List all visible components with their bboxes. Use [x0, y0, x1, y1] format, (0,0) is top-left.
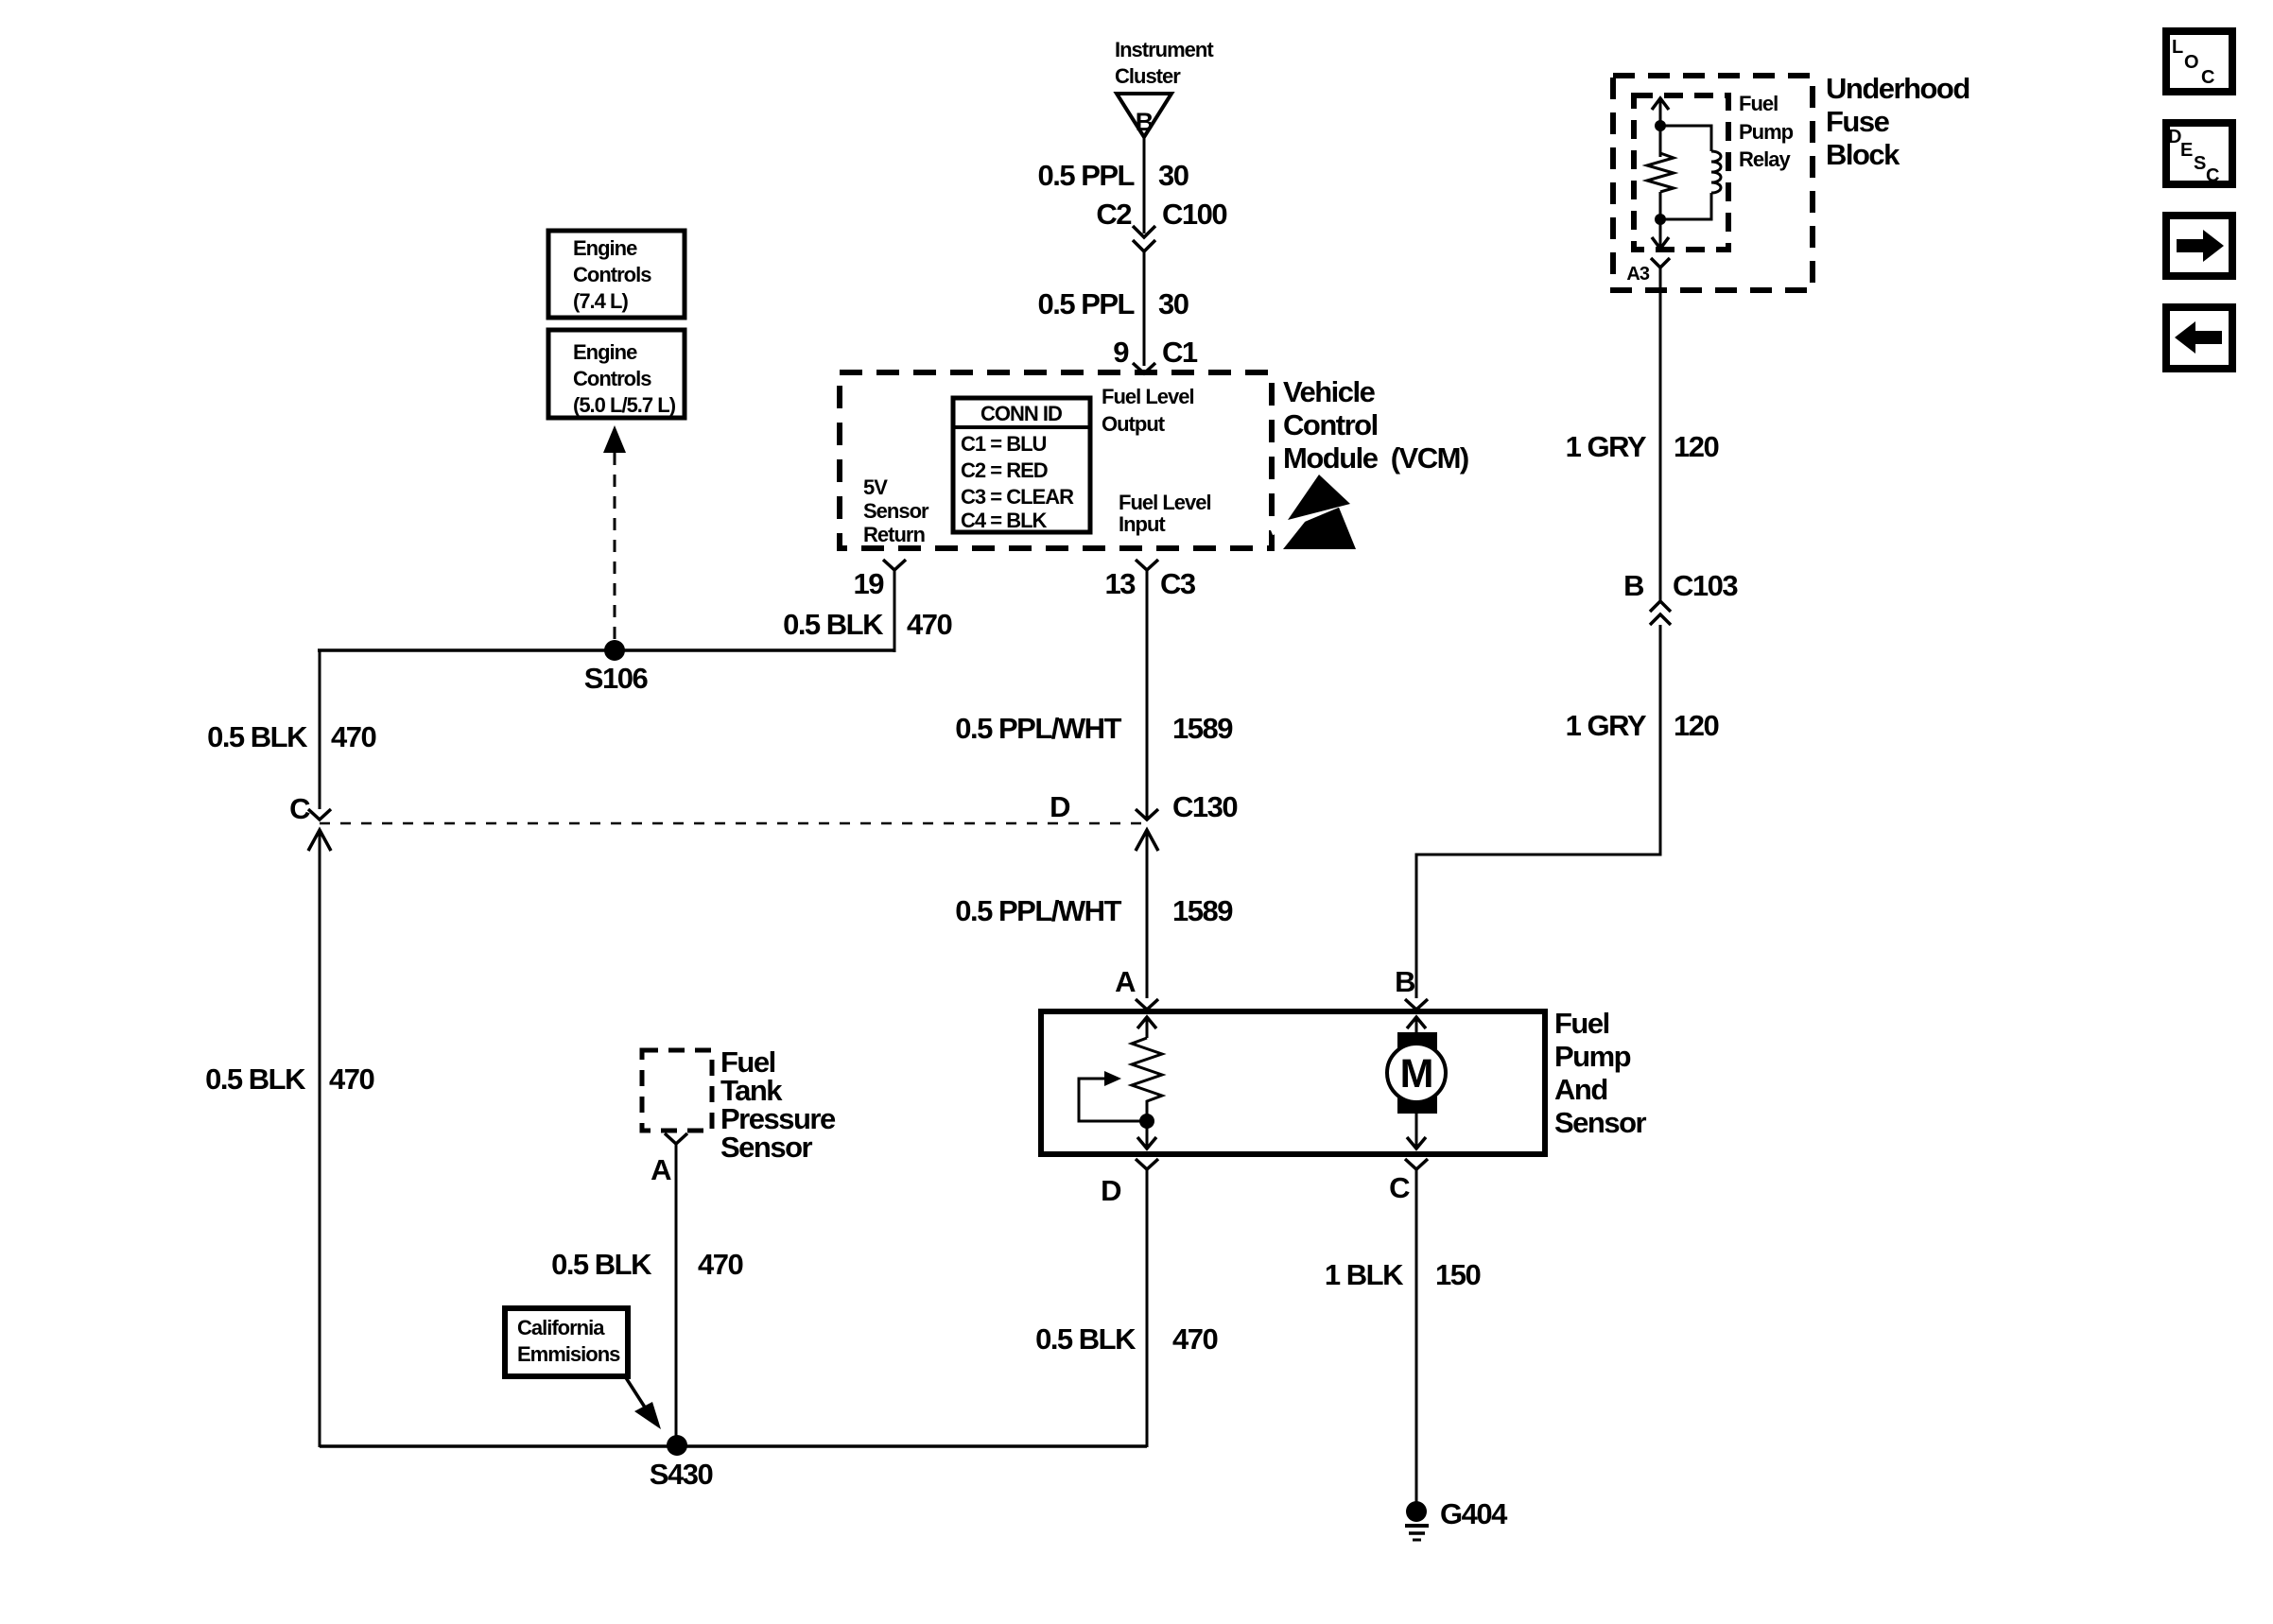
svg-text:A: A — [651, 1153, 671, 1186]
motor arrow up inside box — [1407, 1017, 1426, 1032]
svg-text:0.5 PPL/WHT: 0.5 PPL/WHT — [955, 894, 1121, 927]
wire: instrument cluster to connector C100 — [1143, 137, 1146, 233]
svg-text:Emmisions: Emmisions — [517, 1342, 620, 1366]
underhood fuse block label — [1826, 72, 1969, 171]
fuel pump and sensor box — [1041, 1011, 1545, 1154]
wire: connector C down to bottom wire — [319, 830, 321, 1447]
svg-text:30: 30 — [1158, 159, 1189, 192]
VCM label text — [1283, 375, 1468, 475]
svg-text:C100: C100 — [1162, 198, 1226, 231]
svg-text:0.5 PPL/WHT: 0.5 PPL/WHT — [955, 712, 1121, 745]
svg-text:0.5 PPL: 0.5 PPL — [1038, 159, 1135, 192]
wire label 0.5 PPL 30 (upper) — [1038, 159, 1189, 192]
svg-text:120: 120 — [1674, 430, 1718, 463]
splice S106 — [584, 640, 649, 695]
svg-text:19: 19 — [854, 567, 885, 600]
sender arrow down to pin D — [1137, 1121, 1156, 1149]
svg-text:1589: 1589 — [1172, 712, 1233, 745]
motor arrow down to pin C — [1407, 1114, 1426, 1149]
relay wire down with arrow — [1652, 192, 1669, 249]
fuel tank pressure sensor dashed box — [642, 1050, 712, 1131]
svg-text:CONN ID: CONN ID — [980, 402, 1062, 425]
svg-text:Sensor: Sensor — [863, 499, 929, 523]
svg-text:Engine: Engine — [573, 236, 637, 260]
svg-text:(7.4 L): (7.4 L) — [573, 289, 628, 313]
nav box DESC — [2166, 123, 2232, 186]
svg-text:B: B — [1136, 108, 1154, 136]
fuel pump pin B label and fork — [1395, 965, 1428, 1010]
svg-text:Module (VCM): Module (VCM) — [1283, 441, 1468, 475]
svg-text:30: 30 — [1158, 287, 1189, 320]
connector D arrow below dashed line — [1136, 830, 1158, 851]
svg-text:470: 470 — [907, 608, 951, 641]
svg-text:120: 120 — [1674, 709, 1718, 742]
svg-text:C130: C130 — [1172, 790, 1237, 823]
wire: pin C down to ground G404 — [1415, 1169, 1418, 1505]
svg-text:C103: C103 — [1673, 569, 1738, 602]
svg-text:Fuel Level: Fuel Level — [1102, 385, 1194, 408]
nav box arrow left — [2166, 307, 2232, 369]
engine controls 5.0L/5.7L box — [548, 330, 685, 418]
svg-text:C2: C2 — [1096, 198, 1131, 231]
svg-text:Underhood: Underhood — [1826, 72, 1969, 105]
wire: VCM pin 13 down to connector D — [1146, 570, 1149, 819]
wire label 0.5 BLK 470 (sensor) — [551, 1248, 742, 1281]
svg-text:D: D — [1050, 790, 1070, 823]
svg-text:C: C — [289, 792, 310, 825]
splice S430 — [650, 1435, 713, 1491]
engine controls 7.4L box — [548, 231, 685, 318]
svg-text:1 GRY: 1 GRY — [1566, 430, 1647, 463]
svg-text:0.5 PPL: 0.5 PPL — [1038, 287, 1135, 320]
svg-text:0.5 BLK: 0.5 BLK — [207, 720, 308, 753]
wire label 0.5 PPL 30 (lower) — [1038, 287, 1189, 320]
svg-text:California: California — [517, 1316, 605, 1339]
fuse block pin A3 fork — [1626, 258, 1670, 285]
connector C130 pin C fork — [289, 792, 331, 825]
connector C100 in-line symbol — [1133, 226, 1155, 251]
svg-text:C3 = CLEAR: C3 = CLEAR — [961, 485, 1074, 509]
wire: left drop from S106 to connector C — [319, 650, 321, 809]
svg-text:A3: A3 — [1626, 264, 1649, 285]
svg-text:5V: 5V — [863, 475, 888, 499]
svg-text:Input: Input — [1119, 512, 1166, 536]
svg-text:G404: G404 — [1440, 1497, 1508, 1530]
relay top junction — [1655, 120, 1666, 131]
svg-text:Control: Control — [1283, 408, 1378, 441]
svg-text:1 GRY: 1 GRY — [1566, 709, 1647, 742]
svg-text:Relay: Relay — [1739, 147, 1791, 171]
svg-text:C1 = BLU: C1 = BLU — [961, 432, 1047, 456]
svg-text:470: 470 — [698, 1248, 742, 1281]
svg-text:9: 9 — [1113, 336, 1129, 369]
svg-text:Fuse: Fuse — [1826, 105, 1890, 138]
svg-text:Return: Return — [863, 523, 925, 546]
nav box LOC — [2166, 31, 2232, 92]
svg-text:Cluster: Cluster — [1115, 64, 1181, 88]
wire label 0.5 BLK 470 (pin 19) — [783, 608, 951, 641]
svg-text:Fuel: Fuel — [1554, 1007, 1609, 1040]
relay resistor element — [1647, 153, 1674, 192]
dashed harness line C130 — [320, 822, 1147, 825]
fuel pump relay inner dashed box — [1634, 95, 1728, 250]
svg-text:L: L — [2172, 37, 2183, 58]
wire: pin A down to splice S430 — [675, 1144, 678, 1447]
fuel tank pressure sensor pin A fork and label — [651, 1133, 687, 1186]
svg-text:C: C — [2201, 67, 2214, 88]
svg-text:O: O — [2184, 52, 2198, 73]
svg-text:Fuel Level: Fuel Level — [1119, 491, 1211, 514]
wire: connector D down to fuel pump pin A — [1146, 830, 1149, 998]
svg-text:Sensor: Sensor — [720, 1131, 813, 1164]
sender arrow up inside box — [1137, 1017, 1156, 1038]
svg-text:C2 = RED: C2 = RED — [961, 458, 1048, 482]
svg-text:D: D — [2168, 127, 2181, 147]
VCM pin 9 fork — [1133, 363, 1155, 373]
VCM pin 19 fork — [883, 560, 906, 570]
svg-text:C: C — [2206, 165, 2219, 186]
svg-text:0.5 BLK: 0.5 BLK — [205, 1063, 306, 1096]
wire: pin D down to bottom wire — [1146, 1169, 1149, 1447]
svg-text:B: B — [1395, 965, 1414, 998]
fuel pump pin D fork and label — [1101, 1159, 1158, 1207]
connector C100 pin C2 labels — [1096, 198, 1226, 231]
wire: C100 to VCM pin 9 C1 — [1143, 251, 1146, 366]
instrument cluster label — [1115, 38, 1214, 88]
fuel pump and sensor label — [1554, 1007, 1647, 1139]
svg-text:150: 150 — [1435, 1258, 1480, 1291]
fuel pump motor M — [1387, 1032, 1446, 1114]
svg-text:Pump: Pump — [1739, 120, 1794, 144]
svg-text:470: 470 — [329, 1063, 373, 1096]
wire label 1 GRY 120 (lower) — [1566, 709, 1719, 742]
wire label 0.5 PPL/WHT 1589 (lower) — [955, 894, 1233, 927]
svg-text:13: 13 — [1105, 567, 1136, 600]
ground G404 — [1405, 1497, 1508, 1540]
underhood fuse block outer dashed box — [1613, 76, 1813, 290]
wire: A3 down to connector C103 — [1659, 268, 1662, 602]
connector C103 pin B labels — [1623, 569, 1738, 602]
VCM pin 13 fork — [1136, 560, 1158, 570]
svg-text:C: C — [1389, 1171, 1410, 1204]
svg-text:Instrument: Instrument — [1115, 38, 1214, 61]
svg-text:S430: S430 — [650, 1458, 713, 1491]
svg-text:470: 470 — [1172, 1322, 1217, 1356]
svg-text:470: 470 — [331, 720, 375, 753]
wire label 0.5 BLK 470 (left upper) — [207, 720, 375, 753]
wire: VCM pin 19 down to S106 — [894, 570, 896, 652]
wire label 0.5 BLK 470 (pin D) — [1035, 1322, 1217, 1356]
svg-text:Pump: Pump — [1554, 1040, 1631, 1073]
svg-text:C3: C3 — [1160, 567, 1196, 600]
VCM internal label: Fuel Level Output — [1102, 385, 1194, 436]
nav box arrow right — [2166, 216, 2232, 276]
fuel tank pressure sensor label — [720, 1045, 836, 1164]
sender wiper arrow — [1079, 1071, 1147, 1121]
VCM internal label: 5V Sensor Return — [863, 475, 929, 546]
svg-text:Engine: Engine — [573, 340, 637, 364]
CONN ID table — [953, 398, 1090, 532]
relay bottom junction — [1655, 214, 1666, 225]
wire: S106 horizontal — [318, 648, 894, 652]
svg-text:Sensor: Sensor — [1554, 1106, 1647, 1139]
wire label 1 BLK 150 — [1325, 1258, 1481, 1291]
connector C arrow below dashed line — [308, 830, 331, 851]
svg-text:D: D — [1101, 1174, 1121, 1207]
wire label 0.5 BLK 470 (left lower) — [205, 1063, 373, 1096]
ESD sensitive device symbol — [1271, 475, 1363, 549]
svg-text:1 BLK: 1 BLK — [1325, 1258, 1404, 1291]
svg-text:S: S — [2194, 153, 2206, 174]
relay arrow up (to fuse block top) — [1652, 98, 1669, 157]
sender junction dot — [1139, 1114, 1154, 1129]
VCM internal label: Fuel Level Input — [1119, 491, 1211, 536]
svg-text:0.5 BLK: 0.5 BLK — [551, 1248, 652, 1281]
connector C103 in-line symbol — [1650, 601, 1671, 625]
svg-text:B: B — [1623, 569, 1643, 602]
wire: bottom horizontal — [320, 1444, 1147, 1448]
svg-text:S106: S106 — [584, 662, 649, 695]
dashed wire: S106 to engine controls with arrow — [603, 425, 626, 650]
svg-text:C1: C1 — [1162, 336, 1198, 369]
wire label 1 GRY 120 (upper) — [1566, 430, 1719, 463]
svg-text:And: And — [1554, 1073, 1607, 1106]
california emmisions arrow to S430 — [625, 1376, 661, 1429]
svg-text:A: A — [1115, 965, 1136, 998]
fuel pump relay label — [1739, 92, 1794, 171]
svg-text:(5.0 L/5.7 L): (5.0 L/5.7 L) — [573, 393, 676, 417]
svg-text:0.5 BLK: 0.5 BLK — [783, 608, 884, 641]
fuel level sender variable resistor — [1132, 1038, 1162, 1121]
svg-text:0.5 BLK: 0.5 BLK — [1035, 1322, 1136, 1356]
connector C130 pin D labels and fork — [1050, 790, 1237, 823]
wire: C103 down, bend left, down to fuel pump pin B — [1416, 625, 1660, 998]
wire label 0.5 PPL/WHT 1589 (upper) — [955, 712, 1233, 745]
svg-text:Block: Block — [1826, 138, 1900, 171]
svg-text:E: E — [2180, 140, 2193, 161]
relay coil element — [1660, 126, 1721, 219]
fuel pump pin A label and fork — [1115, 965, 1158, 1010]
svg-text:M: M — [1400, 1051, 1433, 1097]
fuel pump pin C fork and label — [1389, 1159, 1428, 1204]
svg-text:C4 = BLK: C4 = BLK — [961, 509, 1048, 532]
instrument cluster connector triangle B — [1117, 94, 1171, 137]
svg-text:1589: 1589 — [1172, 894, 1233, 927]
svg-text:Controls: Controls — [573, 263, 651, 286]
california emmisions callout box — [505, 1308, 628, 1376]
svg-text:Fuel: Fuel — [1739, 92, 1778, 115]
vehicle control module VCM dashed box — [840, 372, 1272, 548]
VCM pin 13 C3 labels — [1105, 567, 1196, 600]
svg-text:Output: Output — [1102, 412, 1166, 436]
svg-text:Vehicle: Vehicle — [1283, 375, 1376, 408]
VCM pin 9 C1 labels — [1113, 336, 1198, 369]
svg-text:Controls: Controls — [573, 367, 651, 390]
